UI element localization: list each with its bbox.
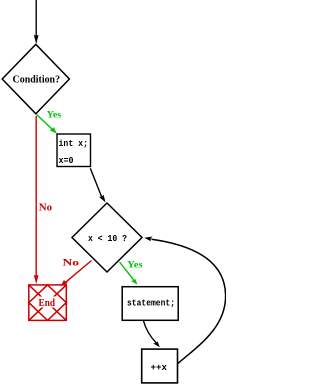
svg-text:int x;: int x;	[59, 139, 89, 149]
svg-text:End: End	[39, 298, 56, 309]
svg-text:No: No	[39, 203, 52, 214]
svg-text:x < 10 ?: x < 10 ?	[88, 233, 127, 244]
svg-text:Yes: Yes	[127, 259, 143, 269]
svg-text:No: No	[63, 258, 80, 268]
svg-text:statement;: statement;	[127, 299, 175, 309]
svg-text:x=0: x=0	[59, 156, 74, 166]
svg-text:Condition?: Condition?	[13, 74, 61, 85]
svg-text:Yes: Yes	[47, 109, 62, 119]
svg-text:++x: ++x	[151, 363, 168, 373]
